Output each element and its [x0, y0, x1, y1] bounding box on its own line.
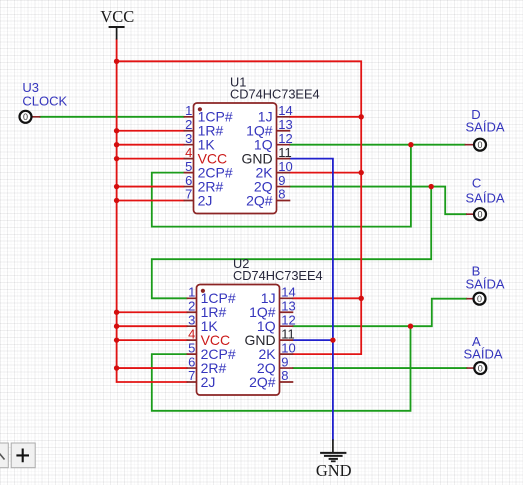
svg-text:SAÍDA: SAÍDA [463, 347, 502, 362]
svg-text:U1: U1 [230, 75, 246, 90]
svg-text:0: 0 [477, 140, 482, 150]
svg-text:0: 0 [478, 363, 483, 373]
svg-text:0: 0 [23, 112, 28, 122]
svg-text:VCC: VCC [100, 7, 134, 26]
svg-text:C: C [472, 175, 481, 190]
svg-text:U2: U2 [233, 256, 249, 271]
svg-text:SAÍDA: SAÍDA [465, 191, 504, 206]
svg-text:0: 0 [477, 209, 482, 219]
svg-text:0: 0 [477, 294, 482, 304]
svg-text:SAÍDA: SAÍDA [465, 120, 504, 135]
svg-text:CLOCK: CLOCK [22, 93, 67, 108]
svg-text:SAÍDA: SAÍDA [465, 277, 504, 292]
svg-text:GND: GND [316, 461, 352, 480]
